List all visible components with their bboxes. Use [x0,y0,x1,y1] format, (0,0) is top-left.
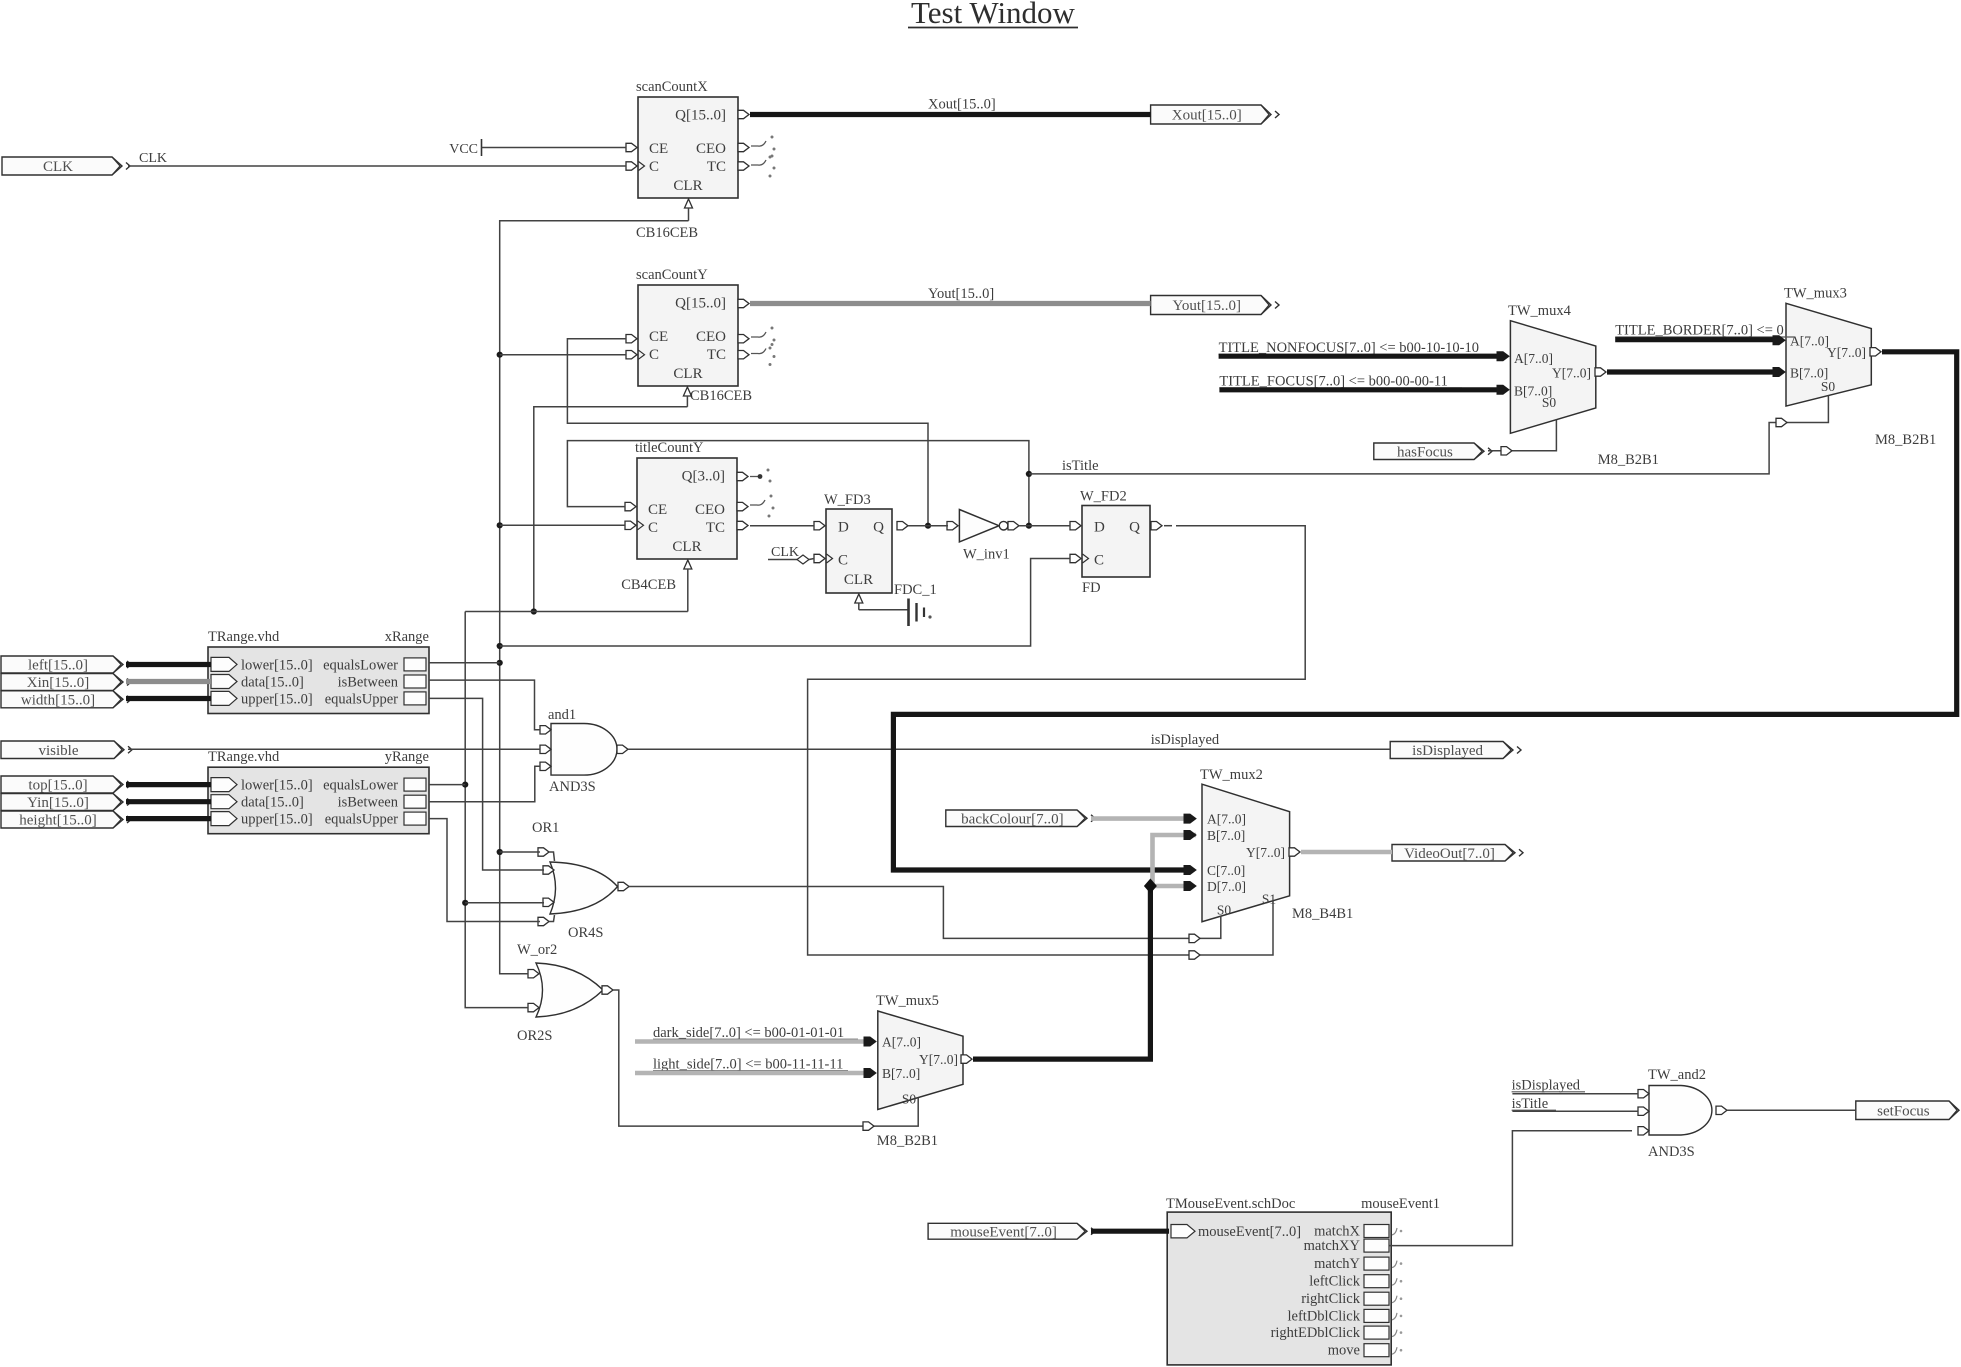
svg-text:move: move [1328,1343,1360,1359]
port left[15..0] [1,656,131,674]
pin in2 of W_or2 [528,1003,539,1011]
svg-text:upper[15..0]: upper[15..0] [241,691,313,707]
svg-text:yRange: yRange [385,749,429,765]
pin Q of W_FD3 [897,522,908,530]
svg-text:height[15..0]: height[15..0] [19,813,96,829]
svg-text:matchXY: matchXY [1304,1238,1361,1254]
svg-text:TITLE_BORDER[7..0] <= 0: TITLE_BORDER[7..0] <= 0 [1615,323,1784,339]
svg-text:titleCountY: titleCountY [635,440,704,456]
svg-text:VideoOut[7..0]: VideoOut[7..0] [1404,846,1495,862]
svg-text:matchX: matchX [1314,1224,1360,1240]
svg-text:isTitle: isTitle [1512,1096,1549,1112]
sheet symbol yRange (TRange.vhd) [208,749,429,834]
wire y-clear horizontal titleCountY.CLR [465,611,688,613]
svg-text:matchY: matchY [1314,1256,1360,1272]
wire CLK diamond to W_FD3.C [809,559,814,560]
port Yin[15..0] [1,794,131,812]
pin out of OR1 [618,882,629,890]
bus dark_side to TW_mux5.A [635,1037,876,1046]
svg-text:isDisplayed: isDisplayed [1512,1078,1581,1094]
svg-text:data[15..0]: data[15..0] [241,675,304,691]
bus TW_mux2.B from D junction [1153,831,1197,885]
port Xin[15..0] [1,674,131,692]
OR gate OR1 (OR4S) [532,820,618,941]
svg-text:Yin[15..0]: Yin[15..0] [27,795,89,811]
bus TW_mux5.Y to D junction (title colour) [961,886,1150,1063]
pin in3 of and1 [540,762,551,770]
wire titleCountY.TC to W_FD3.D [750,525,814,527]
mux TW_mux5 (M8_B2B1) [876,993,963,1149]
svg-text:S0: S0 [1217,903,1232,918]
svg-text:S0: S0 [902,1092,917,1107]
svg-text:CEO: CEO [695,502,725,518]
svg-text:C[7..0]: C[7..0] [1207,863,1245,878]
net label isTitle at TW_and2 [1512,1096,1556,1112]
pin in2 of OR1 [543,866,554,874]
svg-text:C: C [649,347,659,363]
bus backColour to TW_mux2.A [1091,814,1196,823]
pin input of W_inv1 [947,522,958,530]
pin TC of scanCountX (no connect) [738,155,776,178]
svg-text:D: D [1094,520,1105,536]
svg-text:scanCountY: scanCountY [636,267,708,283]
junction bus D/B/mux5.Y [1144,879,1157,894]
svg-text:CLK: CLK [139,151,167,166]
OR gate W_or2 (OR2S) [517,942,603,1044]
svg-text:CE: CE [649,329,668,345]
svg-text:TRange.vhd: TRange.vhd [208,749,280,765]
svg-text:TC: TC [707,347,726,363]
net label CLK [139,151,167,166]
svg-text:D: D [838,520,849,536]
svg-text:Q[15..0]: Q[15..0] [675,108,726,124]
pin CE of titleCountY [625,502,636,510]
svg-text:TMouseEvent.schDoc: TMouseEvent.schDoc [1166,1196,1295,1212]
wire W_inv1 output to W_FD2.D [1019,525,1070,527]
wire TW_and2 output to setFocus port [1727,1109,1856,1111]
svg-text:C: C [838,553,848,569]
port height[15..0] [1,811,131,829]
pin Q[15..0] of scanCountY [738,299,749,307]
net Xout[15..0] bus label [928,97,996,113]
junction y-clear rail at OR1.in3 [462,900,468,906]
port Xout[15..0] [1151,105,1279,124]
pin in4 of OR1 [538,915,555,926]
port VideoOut[7..0] [1392,845,1523,862]
wire hasFocus to TW_mux4.S0 [1488,420,1556,455]
port Yout[15..0] [1151,296,1279,315]
svg-text:S0: S0 [1821,379,1836,394]
junction clear rail at y-clear horizontal [531,608,537,614]
svg-text:AND3S: AND3S [1648,1144,1695,1160]
svg-text:OR4S: OR4S [568,925,603,941]
bus Yout scanCountY.Q to port [750,301,1151,306]
net label dark_side value [653,1025,858,1041]
bus left[15..0] to xRange.lower [126,662,211,667]
wire xRange.equalsUpper to OR1.in2 [429,698,544,870]
svg-text:hasFocus: hasFocus [1397,444,1453,460]
svg-text:OR1: OR1 [532,820,559,836]
junction on rail at xRange.equalsLower [497,660,503,666]
pin in3 of OR1 [543,898,554,906]
mux TW_mux3 (M8_B2B1) [1784,286,1936,449]
svg-text:left[15..0]: left[15..0] [28,658,88,674]
svg-text:top[15..0]: top[15..0] [28,778,87,794]
wire titleCountY.CE from isTitle rail [567,441,1029,526]
wire rail to W_FD2.C [500,559,1070,647]
counter scanCountX (CB16CEB) [636,79,738,241]
svg-text:A[7..0]: A[7..0] [882,1035,921,1050]
svg-text:rightClick: rightClick [1301,1291,1361,1307]
svg-text:CEO: CEO [696,329,726,345]
bus TW_mux4.Y to TW_mux3.B [1595,368,1785,377]
wire and1 output isDisplayed to port [628,748,1390,750]
svg-text:Q[15..0]: Q[15..0] [675,296,726,312]
bus Xout scanCountX.Q to port [750,112,1151,117]
AND gate TW_and2 (AND3S) [1648,1067,1712,1160]
net label isTitle [1062,458,1099,474]
pin CE of scanCountX [626,143,637,151]
svg-text:data[15..0]: data[15..0] [241,795,304,811]
sheet symbol mouseEvent1 (TMouseEvent.schDoc) [1166,1196,1440,1365]
svg-text:isDisplayed: isDisplayed [1412,743,1483,759]
pin TC of titleCountY [737,521,748,529]
svg-text:FD: FD [1082,580,1101,596]
svg-text:S0: S0 [1542,395,1557,410]
svg-text:backColour[7..0]: backColour[7..0] [961,811,1063,827]
wire W_FD2.Q to TW_mux2.S1 [808,526,1306,955]
pin CLR of W_FD3 [855,594,863,610]
svg-text:isBetween: isBetween [338,675,399,691]
port isDisplayed [1390,742,1521,760]
pin arrow on TW_mux2.S1 wire [1189,951,1200,959]
wire yRange.equalsLower to rail [429,784,465,786]
AND gate and1 (AND3S) [548,707,617,795]
svg-text:C: C [648,520,658,536]
pin in3 of TW_and2 [1638,1127,1649,1135]
svg-text:Q[3..0]: Q[3..0] [682,469,725,485]
pin in1 of OR1 [538,848,555,861]
svg-text:dark_side[7..0] <= b00-01-01-0: dark_side[7..0] <= b00-01-01-01 [653,1025,844,1041]
bus TW_mux2.D from junction [1153,882,1197,891]
pin out of W_or2 [602,986,613,994]
flip-flop W_FD3 (FDC_1) [824,492,937,598]
svg-text:leftClick: leftClick [1309,1274,1360,1290]
pin arrow on TW_mux2.S0 wire [1189,934,1200,942]
svg-text:M8_B4B1: M8_B4B1 [1292,906,1353,922]
bus TW_mux2.Y to VideoOut port [1289,848,1392,856]
svg-text:CLR: CLR [672,539,701,555]
svg-text:W_FD2: W_FD2 [1080,489,1127,505]
wire CLK port to scanCountX.C [128,165,626,167]
svg-text:isDisplayed: isDisplayed [1151,732,1220,748]
bus light_side to TW_mux5.B [635,1069,876,1078]
svg-text:mouseEvent[7..0]: mouseEvent[7..0] [1198,1224,1301,1240]
wire xRange.isBetween to and1.in1 [429,680,540,730]
port setFocus [1856,1101,1961,1120]
svg-text:upper[15..0]: upper[15..0] [241,812,313,828]
pin out of and1 [617,745,628,753]
pin CEO of scanCountY (no connect) [738,327,776,350]
pin out of TW_and2 [1716,1106,1727,1114]
svg-text:OR2S: OR2S [517,1028,552,1044]
pin D of W_FD3 [814,522,825,530]
svg-text:W_or2: W_or2 [517,942,557,958]
bus Yin[15..0] to yRange.data [126,799,211,804]
port hasFocus [1374,443,1492,460]
wire y-clear vertical rail to OR2S.in2 [465,612,528,1008]
svg-text:CE: CE [649,141,668,157]
svg-text:CLR: CLR [673,178,702,194]
pin in2 of TW_and2 [1638,1107,1649,1115]
bus mouseEvent port to sheet pin [1091,1229,1169,1234]
wire yRange.equalsUpper to OR1.in4 [429,819,540,922]
svg-text:xRange: xRange [385,629,429,645]
net label TITLE_BORDER value [1615,323,1795,339]
svg-text:CB4CEB: CB4CEB [621,577,676,593]
svg-text:leftDblClick: leftDblClick [1288,1308,1361,1324]
svg-text:TW_mux5: TW_mux5 [876,993,939,1009]
pin CEO of scanCountX (no connect) [738,136,776,159]
svg-text:C: C [649,159,659,175]
port top[15..0] [1,776,131,794]
svg-text:CB16CEB: CB16CEB [690,388,752,404]
svg-text:Q: Q [1129,520,1140,536]
svg-text:AND3S: AND3S [549,779,596,795]
svg-text:TC: TC [706,520,725,536]
junction isTitle rail at isTitle wire [1026,471,1032,477]
pin CLR of scanCountX [685,199,693,221]
pin in2 of and1 [540,745,551,753]
svg-text:Test Window: Test Window [911,0,1076,30]
pin output of W_inv1 [1008,522,1019,530]
svg-text:D[7..0]: D[7..0] [1207,879,1246,894]
svg-text:B[7..0]: B[7..0] [882,1066,920,1081]
svg-text:M8_B2B1: M8_B2B1 [1598,452,1659,468]
svg-text:rightEDblClick: rightEDblClick [1271,1325,1361,1341]
net label light_side value [653,1057,848,1073]
wire xRange.equalsLower to rail [429,662,500,664]
port CLK [2,157,130,175]
pin Q[15..0] of scanCountX [738,110,749,118]
pin C of scanCountX (clock) [626,162,645,171]
port width[15..0] [1,691,131,709]
junction on rail at titleCountY.C [497,522,503,528]
svg-text:equalsLower: equalsLower [323,778,398,794]
power symbol VCC [449,139,481,157]
wire rail to OR1.in1 [500,851,540,853]
pin in1 of W_or2 [528,970,539,978]
wire W_FD3.Q to W_inv1 input [908,525,948,527]
pin TC of scanCountY (no connect) [738,343,776,366]
pin CLR of titleCountY [684,560,692,612]
pin Q of W_FD2 [1151,522,1172,530]
svg-text:Y[7..0]: Y[7..0] [919,1052,958,1067]
bus top[15..0] to yRange.lower [126,782,211,787]
wire scanCountY.CLR to clear rail [534,407,688,612]
svg-text:CB16CEB: CB16CEB [636,225,698,241]
bus Xin[15..0] to xRange.data [126,679,211,684]
svg-text:CEO: CEO [696,141,726,157]
svg-text:Q: Q [873,520,884,536]
svg-text:CLR: CLR [844,572,873,588]
svg-text:W_inv1: W_inv1 [963,547,1010,563]
svg-text:TW_mux2: TW_mux2 [1200,767,1263,783]
net label TITLE_NONFOCUS value [1219,340,1496,356]
svg-text:M8_B2B1: M8_B2B1 [1875,432,1936,448]
pin in1 of TW_and2 [1638,1090,1649,1098]
counter scanCountY (CB16CEB) [636,267,752,404]
junction on rail at OR1.in1 [497,849,503,855]
svg-text:TRange.vhd: TRange.vhd [208,629,280,645]
bus TITLE_FOCUS to TW_mux4.B [1219,385,1509,394]
sheet title "Test Window" [908,0,1078,30]
ground symbol at W_FD3 CLR [859,599,932,627]
svg-text:lower[15..0]: lower[15..0] [241,778,313,794]
svg-text:equalsUpper: equalsUpper [325,691,398,707]
svg-text:W_FD3: W_FD3 [824,492,871,508]
svg-text:Xin[15..0]: Xin[15..0] [27,675,90,691]
svg-text:Y[7..0]: Y[7..0] [1552,366,1591,381]
svg-text:and1: and1 [548,707,576,723]
junction y-clear rail at yRange.equalsLower [462,782,468,788]
bus TITLE_BORDER to TW_mux3.A [1615,336,1785,345]
svg-text:A[7..0]: A[7..0] [1207,812,1246,827]
pin CEO of titleCountY (no connect) [737,495,775,518]
svg-text:Yout[15..0]: Yout[15..0] [1173,298,1242,314]
svg-text:TW_mux4: TW_mux4 [1508,303,1572,319]
svg-text:B[7..0]: B[7..0] [1207,828,1245,843]
svg-text:TW_and2: TW_and2 [1648,1067,1706,1083]
wire matchXY to TW_and2.in3 [1389,1131,1632,1246]
pin in1 of and1 [540,726,551,734]
svg-text:Y[7..0]: Y[7..0] [1827,345,1866,360]
svg-text:Xout[15..0]: Xout[15..0] [928,97,996,113]
wire isTitle to TW_mux3.S0 [1029,396,1829,474]
svg-text:isTitle: isTitle [1062,458,1099,474]
wire OR1 output to TW_mux2.S0 [629,887,1221,939]
svg-text:visible: visible [39,743,79,759]
wire yRange.isBetween to and1.in3 [429,766,540,801]
svg-text:CLK: CLK [771,545,799,560]
bus TITLE_NONFOCUS to TW_mux4.A [1219,352,1509,361]
net Yout[15..0] bus label [928,286,994,302]
svg-text:lower[15..0]: lower[15..0] [241,657,313,673]
junction W_FD3.Q at scanCountY.CE rail [925,523,931,529]
svg-text:A[7..0]: A[7..0] [1790,334,1829,349]
wire visible port to and1.in2 [128,748,540,750]
svg-text:setFocus: setFocus [1877,1103,1930,1119]
inverter W_inv1 [959,510,1009,563]
svg-text:TW_mux3: TW_mux3 [1784,286,1847,302]
mux TW_mux4 (M8_B2B1) [1508,303,1659,468]
svg-text:scanCountX: scanCountX [636,79,708,95]
svg-text:TITLE_FOCUS[7..0] <= b00-00-00: TITLE_FOCUS[7..0] <= b00-00-00-11 [1219,374,1447,390]
svg-text:mouseEvent1: mouseEvent1 [1361,1196,1440,1212]
bus width[15..0] to xRange.upper [126,696,211,701]
wire W_or2 output to TW_mux5.S0 [613,990,918,1126]
port mouseEvent[7..0] [928,1223,1095,1240]
pin D of W_FD2 [1070,522,1081,530]
bus height[15..0] to yRange.upper [126,816,211,821]
net label CLK at W_FD3 clock input [768,545,809,564]
flip-flop W_FD2 (FD) [1080,489,1150,597]
svg-text:mouseEvent[7..0]: mouseEvent[7..0] [950,1224,1057,1240]
sheet symbol xRange (TRange.vhd) [208,629,429,714]
wire VCC to scanCountX.CE [482,147,627,149]
svg-text:light_side[7..0] <= b00-11-11-: light_side[7..0] <= b00-11-11-11 [653,1057,843,1073]
counter titleCountY (CB4CEB) [621,440,737,593]
wire scanCountX.CLR net (to vertical rail) [500,221,689,974]
wire isTitle stub to TW_and2.in2 [1512,1110,1638,1112]
bus TW_mux3.Y border loop to TW_mux2.C [893,348,1956,875]
pin C of W_FD3 (clock) [814,554,833,563]
svg-text:C: C [1094,553,1104,569]
pin C of W_FD2 (clock) [1070,554,1089,563]
mux TW_mux2 (M8_B4B1) [1200,767,1353,922]
svg-text:FDC_1: FDC_1 [894,582,937,598]
svg-text:S1: S1 [1262,892,1276,907]
junction on CLR/C rail at scanCountY.C [497,352,503,358]
net isDisplayed label (middle) [1151,732,1220,748]
pin C of titleCountY (clock) [625,521,644,530]
port backColour[7..0] [946,810,1095,827]
net label isDisplayed at TW_and2 [1512,1078,1585,1094]
port visible [1,741,132,759]
junction on rail at W_FD2.C branch [497,643,503,649]
net label TITLE_FOCUS value [1219,374,1462,390]
svg-text:CLK: CLK [43,159,73,175]
pin CLR of scanCountY [683,387,691,407]
svg-text:A[7..0]: A[7..0] [1514,351,1553,366]
svg-text:CE: CE [648,502,667,518]
wire rail to scanCountY.C [500,354,626,356]
svg-text:VCC: VCC [449,142,478,157]
svg-text:Xout[15..0]: Xout[15..0] [1172,108,1242,124]
svg-text:Y[7..0]: Y[7..0] [1246,845,1285,860]
svg-text:TC: TC [707,159,726,175]
pin Q[3..0] of titleCountY (no connect) [737,469,772,483]
svg-text:M8_B2B1: M8_B2B1 [877,1133,938,1149]
pin arrow on TW_mux5.S0 wire [863,1122,874,1130]
junction isTitle rail at inverter output [1026,523,1032,529]
svg-text:equalsUpper: equalsUpper [325,812,398,828]
wire isDisplayed stub to TW_and2.in1 [1512,1093,1638,1095]
wire scanCountY.CE from W_FD3.Q rail [567,339,928,526]
wire rail to titleCountY.C [500,524,625,526]
pin arrow on TW_mux3.S0 wire [1776,418,1787,426]
svg-text:CLR: CLR [673,366,702,382]
pin CE of scanCountY [626,335,637,343]
pin C of scanCountY (clock) [626,350,645,359]
wire rail to OR1.in3 [465,902,544,904]
svg-text:width[15..0]: width[15..0] [21,692,95,708]
svg-text:isBetween: isBetween [338,795,399,811]
svg-text:Yout[15..0]: Yout[15..0] [928,286,994,302]
svg-text:equalsLower: equalsLower [323,657,398,673]
